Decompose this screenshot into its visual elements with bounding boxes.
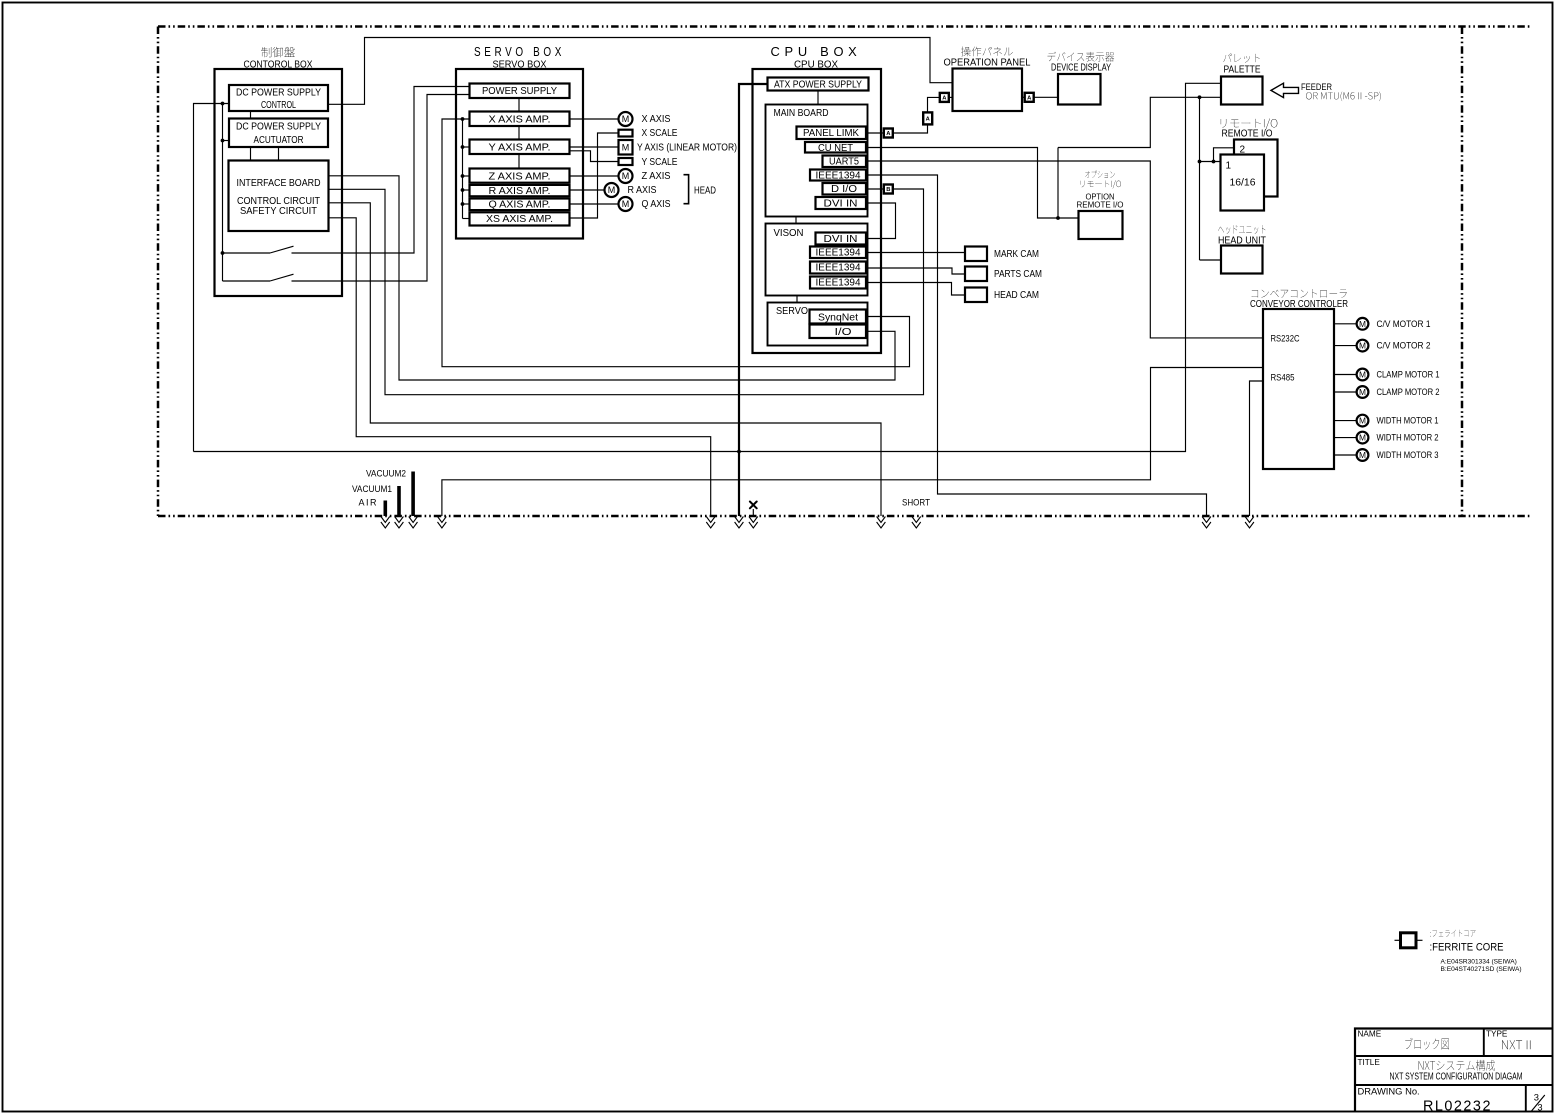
- svg-text:D I/O: D I/O: [831, 184, 857, 195]
- svg-text:ATX POWER SUPPLY: ATX POWER SUPPLY: [774, 80, 862, 91]
- wire vision IEEE to head cam: [866, 283, 965, 296]
- arrow interface wire4 exit: [706, 517, 715, 529]
- motor M Q axis: [619, 197, 633, 211]
- wire Y amp to Y linear motor: [570, 146, 619, 148]
- no-connect X mark: [750, 502, 757, 509]
- parts camera box: [965, 267, 987, 282]
- wire bus stub XS amp: [463, 218, 470, 220]
- svg-text:CLAMP MOTOR 1: CLAMP MOTOR 1: [1377, 369, 1440, 380]
- wire to head unit: [1200, 259, 1222, 261]
- motor M width 3: [1357, 449, 1369, 461]
- svg-text:REMOTE I/O: REMOTE I/O: [1077, 201, 1124, 210]
- net interface wire3 to boundary arrow: [329, 203, 882, 516]
- system boundary dashed box: [158, 27, 1532, 517]
- svg-text:Q AXIS: Q AXIS: [642, 199, 671, 210]
- label remote I/O (JP): [1221, 119, 1278, 130]
- svg-text:MARK CAM: MARK CAM: [994, 249, 1039, 260]
- svg-text:DC POWER SUPPLY: DC POWER SUPPLY: [236, 87, 321, 98]
- motor M width 1: [1357, 415, 1369, 427]
- wire ATX to main board: [817, 91, 819, 105]
- pipe AIR stub: [383, 501, 387, 517]
- wire into display: [1034, 96, 1059, 98]
- svg-text:WIDTH MOTOR 3: WIDTH MOTOR 3: [1377, 449, 1439, 460]
- wire Z amp to Z motor: [570, 175, 619, 177]
- motor Y axis linear motor box: [619, 140, 633, 155]
- wire conveyor to width motor3: [1334, 454, 1357, 456]
- junction switch bus: [221, 251, 225, 255]
- ferrite core A on panel link wire: [884, 129, 893, 138]
- DC power supply actuator unit: [229, 119, 328, 148]
- ferrite core A op panel to display: [1025, 93, 1034, 102]
- svg-text:R AXIS: R AXIS: [628, 185, 657, 196]
- svg-text:DC POWER SUPPLY: DC POWER SUPPLY: [236, 122, 321, 133]
- main board box: [766, 105, 868, 217]
- svg-text:POWER SUPPLY: POWER SUPPLY: [482, 86, 557, 97]
- title block page cell divider: [1525, 1085, 1527, 1112]
- net XS amp to X scale: [570, 133, 619, 218]
- svg-text:B:E04ST40271SD (SEIWA): B:E04ST40271SD (SEIWA): [1441, 966, 1522, 973]
- connector servo I/O: [810, 325, 867, 339]
- title block frame: [1355, 1029, 1553, 1112]
- motor M clamp 2: [1357, 386, 1369, 398]
- motor M C/V 2: [1357, 340, 1369, 352]
- label conveyor controller (JP): [1252, 289, 1347, 298]
- svg-text:IEEE1394: IEEE1394: [816, 278, 862, 289]
- net conveyor RS485 long run to boundary arrow: [442, 368, 1263, 517]
- svg-text:M: M: [1359, 450, 1366, 460]
- vision board box: [766, 224, 868, 296]
- wire bus stub R amp: [463, 189, 470, 191]
- wire conveyor to clamp motor1: [1334, 374, 1357, 376]
- svg-text:ACUTUATOR: ACUTUATOR: [254, 135, 304, 146]
- net Y amp to Y scale: [570, 151, 619, 162]
- junction palette bus to remote IO: [1198, 95, 1202, 99]
- head camera box: [965, 288, 987, 303]
- net PANEL LIMK to operation panel: [866, 132, 884, 134]
- junction X amp bus: [461, 117, 465, 121]
- motor M Z axis: [619, 169, 633, 183]
- svg-text:HEAD: HEAD: [694, 185, 716, 196]
- mark camera box: [965, 247, 987, 262]
- wire conveyor to width motor1: [1334, 420, 1357, 422]
- X axis amplifier: [470, 112, 570, 127]
- connector SynqNet: [810, 310, 867, 324]
- svg-text:WIDTH MOTOR 2: WIDTH MOTOR 2: [1377, 432, 1439, 443]
- type NXT II: [1502, 1040, 1530, 1049]
- svg-text:I/O: I/O: [835, 327, 852, 338]
- svg-text:SERVO: SERVO: [776, 306, 808, 317]
- label palette (JP): [1223, 54, 1259, 63]
- connector PANEL LIMK: [797, 127, 867, 140]
- connector UART5: [823, 156, 867, 168]
- arrow conveyor RS485-2 exit: [1245, 517, 1254, 529]
- net main IEEE1394 down to boundary arrow: [866, 175, 1207, 516]
- svg-text:SynqNet: SynqNet: [818, 312, 858, 323]
- servo box enclosure: [456, 69, 583, 239]
- ferrite core A at operation panel input: [940, 93, 949, 102]
- svg-text:16/16: 16/16: [1230, 178, 1256, 189]
- svg-text:Z AXIS: Z AXIS: [642, 171, 671, 182]
- net DVI loop main to vision: [866, 203, 896, 239]
- arrow VACUUM2 exit: [409, 517, 418, 529]
- net CU NET to option remote I/O and palette bus: [866, 148, 1079, 219]
- palette box: [1221, 77, 1263, 105]
- wire stub to actuator: [223, 140, 230, 142]
- svg-text:M: M: [622, 199, 630, 209]
- Q axis amplifier: [470, 199, 570, 211]
- conveyor controller box: [1263, 309, 1334, 469]
- junction PE with ATX wire: [737, 450, 741, 454]
- svg-text:M: M: [1359, 433, 1366, 443]
- arrow AIR exit: [381, 517, 390, 529]
- junction R amp bus: [461, 188, 465, 192]
- wire op panel to display left: [1022, 96, 1025, 98]
- junction option remote branch: [1056, 216, 1060, 220]
- legend ferrite core JP text: [1430, 930, 1475, 937]
- label option remote IO (JP): [1080, 180, 1121, 188]
- servo board box: [768, 303, 868, 346]
- svg-text:CU NET: CU NET: [818, 143, 853, 154]
- net conveyor RS485 port2 to boundary arrow: [1250, 381, 1264, 516]
- CPU box enclosure: [753, 69, 882, 353]
- wire vision IEEE to parts cam: [866, 268, 965, 274]
- pipe VACUUM1 stub: [397, 486, 401, 516]
- legend ferrite core symbol: [1395, 933, 1423, 948]
- option remote IO box: [1079, 211, 1123, 239]
- title NXT system config (JP): [1419, 1060, 1495, 1071]
- head unit box: [1221, 246, 1263, 274]
- remote IO unit 1 box: [1221, 155, 1265, 211]
- net servo I/O to interface board wire1: [329, 176, 896, 380]
- wire panel link riser to panel: [928, 97, 941, 112]
- svg-text:MAIN BOARD: MAIN BOARD: [774, 108, 829, 119]
- svg-text::FERRITE CORE: :FERRITE CORE: [1430, 941, 1504, 953]
- wire R amp to R motor: [570, 189, 605, 191]
- wire inner left bus: [222, 104, 224, 282]
- wire to remote IO unit1: [1200, 161, 1221, 163]
- switch S2 wire right to servo power supply port2: [292, 95, 470, 282]
- svg-text:Q AXIS AMP.: Q AXIS AMP.: [489, 200, 551, 211]
- wire to remote IO unit2: [1214, 148, 1235, 162]
- wire conveyor to width motor2: [1334, 437, 1357, 439]
- Y axis amplifier: [470, 140, 570, 155]
- svg-text:SHORT: SHORT: [902, 498, 930, 508]
- connector DVI IN main: [816, 197, 867, 209]
- wire actuator to interface board 2: [278, 147, 280, 161]
- wire X amp to X axis motor: [570, 118, 619, 120]
- title name block diagram (JP): [1405, 1038, 1449, 1050]
- svg-text:TYPE: TYPE: [1486, 1029, 1508, 1038]
- junction Y amp bus: [461, 145, 465, 149]
- wire vision to servo board: [796, 296, 798, 303]
- ferrite core A vertical on panel link riser: [923, 112, 932, 124]
- wire X mark stub: [752, 509, 754, 516]
- remote IO unit 2 box: [1234, 140, 1278, 197]
- switch S1 blade: [270, 246, 294, 253]
- arrow ATX frame exit: [735, 517, 744, 529]
- arrow X mark exit: [749, 517, 758, 529]
- X scale sensor: [619, 130, 633, 137]
- XS axis amplifier: [470, 212, 570, 225]
- svg-text:HEAD CAM: HEAD CAM: [994, 290, 1039, 301]
- wire power supply to X amp: [518, 98, 520, 112]
- ferrite core B on D I/O wire: [884, 185, 893, 194]
- power supply module: [470, 84, 570, 99]
- svg-text:VACUUM1: VACUUM1: [352, 484, 392, 494]
- wire remote bus down: [1199, 97, 1201, 260]
- svg-text:CONTROL: CONTROL: [261, 100, 296, 111]
- svg-text:SERVO BOX: SERVO BOX: [474, 45, 565, 59]
- Z axis amplifier: [470, 169, 570, 183]
- wire Y amp to Z amp: [518, 154, 520, 169]
- label control box (JP) 制御盤: [261, 47, 294, 57]
- svg-text:M: M: [622, 171, 630, 181]
- svg-text:M: M: [1359, 341, 1366, 351]
- switch S1 wire left: [223, 252, 271, 254]
- connector D I/O: [823, 183, 867, 195]
- svg-text:XS AXIS AMP.: XS AXIS AMP.: [486, 214, 553, 225]
- motor M R axis: [605, 183, 619, 197]
- svg-text:C/V MOTOR 2: C/V MOTOR 2: [1377, 340, 1431, 351]
- wire panel link continue: [893, 125, 928, 134]
- bracket HEAD group: [684, 175, 689, 204]
- label option (JP): [1085, 171, 1115, 178]
- wire vision IEEE to mark cam: [866, 252, 965, 254]
- svg-text:DVI IN: DVI IN: [824, 234, 858, 245]
- feeder arrow symbol: [1271, 83, 1299, 97]
- label operation panel (JP): [961, 47, 1013, 57]
- wire CU NET to palette riser: [1058, 97, 1221, 147]
- ATX power supply module: [768, 78, 869, 91]
- connector IEEE1394 vision 3: [810, 277, 866, 289]
- motor M X axis: [619, 112, 633, 126]
- motor M clamp 1: [1357, 369, 1369, 381]
- svg-text:PALETTE: PALETTE: [1224, 64, 1261, 75]
- arrow VACUUM1 exit: [395, 517, 404, 529]
- wire bus stub Q amp: [463, 203, 470, 205]
- connector DVI IN vision: [816, 233, 867, 245]
- svg-text:A:E04SR301334 (SEIWA): A:E04SR301334 (SEIWA): [1441, 958, 1517, 965]
- R axis amplifier: [470, 185, 570, 196]
- svg-text:RS485: RS485: [1271, 372, 1295, 383]
- switch S2 wire left: [223, 280, 271, 282]
- svg-text:C/V MOTOR 1: C/V MOTOR 1: [1377, 318, 1431, 329]
- junction Q amp bus: [461, 202, 465, 206]
- interface board box: [229, 161, 329, 232]
- svg-text:M: M: [622, 143, 630, 153]
- arrow interface wire3 exit: [877, 517, 886, 529]
- svg-text:Y SCALE: Y SCALE: [642, 157, 678, 168]
- label OR MTU(M6II-SP): [1306, 92, 1381, 102]
- wire conveyor to clamp motor2: [1334, 391, 1357, 393]
- wire main board to vision board: [795, 217, 797, 224]
- svg-text:M: M: [608, 185, 616, 195]
- connector IEEE1394 vision 1: [810, 247, 866, 259]
- net UART5 to conveyor RS232C: [866, 161, 1263, 338]
- net interface wire4 to boundary arrow: [329, 218, 711, 516]
- svg-text:Y AXIS AMP.: Y AXIS AMP.: [489, 142, 551, 153]
- title block row divider 1: [1355, 1055, 1553, 1057]
- wire conveyor to C/V motor2: [1334, 345, 1357, 347]
- svg-text:IEEE1394: IEEE1394: [816, 247, 862, 258]
- motor M C/V 1: [1357, 318, 1369, 330]
- wire conveyor to C/V motor1: [1334, 323, 1357, 325]
- svg-text:NXT SYSTEM CONFIGURATION DIAGA: NXT SYSTEM CONFIGURATION DIAGAM: [1390, 1072, 1523, 1083]
- net SynqNet: servo bus to CPU servo SynqNet port: [442, 119, 910, 367]
- svg-text:M: M: [1359, 416, 1366, 426]
- svg-text:TITLE: TITLE: [1358, 1058, 1381, 1067]
- pipe VACUUM2 stub: [411, 472, 415, 517]
- svg-text:M: M: [1359, 387, 1366, 397]
- svg-text:UART5: UART5: [829, 157, 860, 168]
- svg-text:IEEE1394: IEEE1394: [816, 263, 862, 274]
- wire Q amp to Q motor: [570, 203, 619, 205]
- motor M width 2: [1357, 432, 1369, 444]
- svg-text:PANEL LIMK: PANEL LIMK: [803, 128, 859, 139]
- svg-text:PARTS CAM: PARTS CAM: [994, 269, 1042, 280]
- label head unit (JP): [1218, 225, 1265, 234]
- connector IEEE1394 vision 2: [810, 262, 866, 274]
- svg-text:DVI IN: DVI IN: [824, 198, 858, 209]
- junction remote IO 2 branch: [1212, 160, 1216, 164]
- svg-text:M: M: [1359, 319, 1366, 329]
- arrow RS485 exit: [438, 517, 447, 529]
- svg-text:OPERATION PANEL: OPERATION PANEL: [944, 57, 1031, 68]
- title block row divider 2: [1355, 1084, 1553, 1086]
- svg-text:X AXIS: X AXIS: [642, 114, 671, 125]
- svg-text:R AXIS AMP.: R AXIS AMP.: [489, 186, 551, 197]
- junction control supply: [221, 102, 225, 106]
- DC power supply control unit: [229, 85, 328, 111]
- device display box: [1058, 74, 1101, 105]
- svg-text:X SCALE: X SCALE: [642, 128, 678, 139]
- svg-text:CPU BOX: CPU BOX: [771, 45, 862, 59]
- wire D I/O run to interface board: [329, 189, 924, 395]
- svg-text:WIDTH MOTOR 1: WIDTH MOTOR 1: [1377, 415, 1439, 426]
- svg-text:B: B: [886, 187, 890, 193]
- svg-text:IEEE1394: IEEE1394: [816, 170, 862, 181]
- connector IEEE1394 main: [810, 170, 866, 181]
- svg-text:Z AXIS AMP.: Z AXIS AMP.: [489, 172, 551, 183]
- wire into operation panel: [949, 96, 953, 98]
- svg-text:X AXIS AMP.: X AXIS AMP.: [489, 114, 551, 125]
- wire amp left bus: [462, 119, 464, 219]
- arrow IEEE1394 exit: [1202, 517, 1211, 529]
- net PE control box to palette: [194, 83, 1222, 451]
- svg-text:FEEDER: FEEDER: [1301, 82, 1332, 93]
- net ATX frame wire down to boundary arrow: [739, 84, 768, 516]
- svg-text:RL02232: RL02232: [1423, 1099, 1492, 1114]
- wire bus stub Y amp: [463, 146, 470, 148]
- svg-text:CLAMP MOTOR 2: CLAMP MOTOR 2: [1377, 386, 1440, 397]
- junction remote IO 1: [1198, 160, 1202, 164]
- wire bus stub Z amp: [463, 175, 470, 177]
- svg-text:M: M: [622, 114, 630, 124]
- wire control to actuator: [250, 111, 252, 119]
- title block name/type divider: [1483, 1029, 1485, 1057]
- Y scale sensor: [619, 158, 633, 165]
- svg-text:Y AXIS (LINEAR MOTOR): Y AXIS (LINEAR MOTOR): [637, 142, 737, 153]
- control box enclosure: [215, 69, 343, 296]
- svg-text:DRAWING No.: DRAWING No.: [1358, 1085, 1420, 1096]
- svg-text:VACUUM2: VACUUM2: [366, 469, 406, 479]
- wire actuator to interface board: [250, 147, 252, 161]
- svg-text:REMOTE I/O: REMOTE I/O: [1222, 129, 1273, 140]
- label device display (JP): [1047, 52, 1114, 62]
- svg-text:INTERFACE BOARD: INTERFACE BOARD: [237, 178, 321, 189]
- svg-text:DEVICE DISPLAY: DEVICE DISPLAY: [1051, 63, 1111, 74]
- arrow SHORT exit: [912, 517, 921, 529]
- wire X amp to Y amp: [518, 126, 520, 140]
- connector CU NET: [805, 142, 866, 153]
- svg-text:RS232C: RS232C: [1271, 333, 1300, 344]
- wire control box to operation panel (top run): [328, 38, 953, 105]
- svg-text:SAFETY CIRCUIT: SAFETY CIRCUIT: [240, 206, 317, 217]
- page number 3/3: [1532, 1091, 1545, 1112]
- svg-text:1: 1: [1226, 161, 1232, 172]
- switch S1 wire right to servo power supply port1: [292, 87, 470, 254]
- wire left bus of control box: [194, 104, 230, 452]
- svg-text:VISON: VISON: [774, 228, 804, 239]
- junction actuator: [221, 139, 225, 143]
- operation panel box: [953, 69, 1023, 112]
- svg-text:NAME: NAME: [1358, 1029, 1382, 1038]
- svg-text:3: 3: [1537, 1102, 1542, 1113]
- wire CU NET branch riser: [1057, 148, 1059, 219]
- svg-text:AIR: AIR: [358, 498, 378, 508]
- junction Z amp bus: [461, 174, 465, 178]
- switch S2 blade: [270, 274, 294, 281]
- net D I/O to interface board wire2: [866, 188, 884, 190]
- svg-text:M: M: [1359, 370, 1366, 380]
